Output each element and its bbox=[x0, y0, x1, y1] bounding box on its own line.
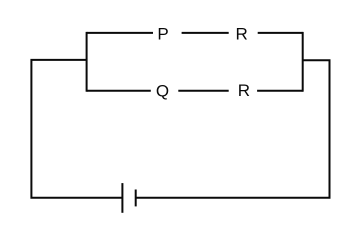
svg-text:R: R bbox=[235, 24, 247, 43]
svg-text:R: R bbox=[238, 81, 250, 100]
svg-text:P: P bbox=[157, 24, 168, 43]
svg-text:Q: Q bbox=[156, 81, 169, 100]
